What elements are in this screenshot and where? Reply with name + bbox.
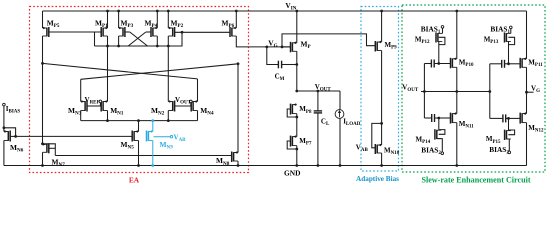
transistor MN7	[43, 143, 49, 153]
label VOUT slew input	[402, 84, 419, 94]
wire MP2/MP6 gate bus	[175, 31, 231, 33]
wire MN7 diode loop	[43, 144, 56, 156]
node VIN label	[285, 1, 296, 12]
wire MN3/MN1 gate bus	[87, 105, 101, 107]
label MP6	[222, 18, 235, 29]
wire MN8 drain column	[237, 64, 239, 153]
label MP5	[47, 18, 60, 29]
wire first-stage bus	[95, 45, 169, 47]
wire IBIAS lead	[3, 106, 5, 132]
wire BIAS1 left stub	[442, 28, 444, 33]
svg-text:BIAS2: BIAS2	[421, 145, 441, 156]
wire right riser	[489, 64, 491, 119]
transistor MP5	[43, 27, 49, 37]
wire MP9 drain to MN10	[381, 51, 383, 146]
transistor MN1	[101, 100, 107, 111]
label VAB adaptive input	[174, 134, 187, 144]
junction MP5 drain / diagonal	[41, 62, 44, 65]
junction MP1 source on VIN	[106, 10, 109, 13]
wire MP2 diode connection	[169, 32, 182, 46]
transistor MP2	[168, 27, 174, 37]
junction MP12 on MP10 gate	[437, 62, 440, 65]
terminal VAB circle (cyan)	[170, 136, 172, 138]
label VG node	[268, 38, 277, 49]
svg-text:EA: EA	[129, 176, 140, 185]
wire MP15 drain lead	[508, 118, 510, 130]
junction VOUT riser left	[423, 90, 426, 93]
junction MP10 source on VIN	[455, 10, 458, 13]
junction MN8 source on GND	[237, 164, 240, 167]
svg-text:Slew-rate Enhancement Circuit: Slew-rate Enhancement Circuit	[421, 175, 530, 184]
wire MP5/MP1 gate bus	[49, 31, 101, 33]
label MP2	[171, 18, 184, 29]
wire MP3 gate cross-couple diagonal	[130, 32, 148, 46]
wire MP gate lead	[282, 46, 290, 48]
label MN6	[10, 143, 24, 154]
junction VOUT riser right	[488, 90, 491, 93]
label MP12	[415, 36, 430, 46]
wire BIAS1 right stub	[510, 29, 512, 34]
wire ILOAD lead top	[339, 91, 341, 110]
wire MN7 gate lead	[49, 147, 56, 149]
transistor MN9 adaptive tail (cyan)	[147, 130, 153, 141]
wire MP3 drain to bus	[118, 36, 120, 46]
junction MP7 on GND	[295, 164, 298, 167]
transistor MP4	[151, 27, 157, 37]
junction CM tap on VG wire	[265, 46, 268, 49]
wire MP source from VIN	[296, 11, 298, 43]
label VG slew output	[531, 84, 540, 94]
capacitor CM plates	[278, 61, 281, 69]
label Slew-rate Enhancement Circuit	[421, 175, 530, 184]
wire MP1 drain to bus	[107, 36, 109, 46]
transistor MN11	[451, 112, 457, 123]
wire MN6 source to GND	[3, 141, 5, 166]
Slew-rate Enhancement block boundary (green dashed box)	[402, 5, 545, 172]
transistor MN4	[191, 100, 197, 111]
svg-text:BIAS2: BIAS2	[489, 145, 509, 156]
capacitor C2 lead	[424, 117, 431, 119]
junction CM on MP drain	[295, 63, 298, 66]
label VAB mirror	[356, 143, 369, 153]
label MN1	[110, 106, 124, 117]
wire MP11 source from VIN	[526, 11, 528, 59]
label MN2	[151, 106, 165, 117]
wire MN1 source to tail	[107, 111, 109, 121]
junction MP3 drain on bus	[117, 45, 120, 48]
junction CL tap	[317, 90, 320, 93]
wire MP10 drain to VOUT node	[456, 67, 458, 91]
label BIAS1 right	[490, 24, 510, 35]
capacitor C4 lead	[490, 117, 503, 119]
wire MP6 drain to VG node	[236, 36, 290, 47]
wire MN7/MN8 gate bus	[55, 155, 231, 157]
junction MP15 tap	[507, 117, 510, 120]
wire MP6 source from VIN	[235, 11, 237, 28]
label MN7	[52, 158, 66, 169]
wire MP11 drain to VG stub	[526, 67, 528, 113]
label EA	[129, 176, 140, 185]
label BIAS1 left	[421, 24, 441, 35]
junction ILOAD on GND	[339, 164, 342, 167]
label MN11	[459, 120, 474, 130]
wire MN2 source to tail	[167, 111, 169, 121]
transistor MN6	[4, 130, 10, 141]
label MP	[301, 40, 311, 51]
capacitor C2 plates	[432, 114, 435, 122]
wire MP4 gate cross-couple diagonal	[128, 32, 146, 46]
junction MN10 on GND	[380, 164, 383, 167]
wire MN5 drain to tail	[138, 121, 140, 132]
transistor MP1	[101, 27, 107, 37]
wire MP2 drain to bus	[167, 36, 169, 46]
junction MN9 source on GND (cyan)	[151, 164, 154, 167]
label MN8	[216, 156, 230, 167]
wire MN9 gate to VAB (cyan)	[154, 136, 171, 138]
label MP10	[459, 58, 474, 68]
label MP11	[528, 58, 543, 68]
label VOUT node	[315, 83, 332, 93]
wire MN10 diode loop	[372, 123, 382, 147]
label Adaptive Bias	[356, 175, 399, 183]
wire VOUT sense	[421, 91, 490, 93]
wire MP5 drain column	[42, 36, 44, 144]
wire MN12 source to GND	[526, 123, 528, 166]
wire C3 to MP11 gate	[505, 63, 521, 65]
junction MN7 source on GND	[41, 164, 44, 167]
terminal BIAS2 left circle	[441, 152, 444, 155]
junction MP4 source on VIN	[156, 10, 159, 13]
transistor MP pass device	[291, 42, 297, 53]
terminal BIAS2 right circle	[508, 151, 511, 154]
junction MP3 source on VIN	[117, 10, 120, 13]
junction MN5 drain on tail	[137, 119, 140, 122]
capacitor C1 lead	[424, 63, 431, 65]
wire MP14 gate-drain loop	[439, 130, 445, 135]
wire MN4 source to tail	[197, 111, 199, 121]
junction diagonal to MN8 drain	[237, 62, 240, 65]
wire MP1 source from VIN	[107, 11, 109, 28]
wire MN5 source to GND	[138, 141, 140, 166]
junction VOUT at MP drain	[295, 90, 298, 93]
terminal VREF circle	[99, 100, 102, 103]
label MP9	[385, 41, 398, 51]
node VOUT wire	[297, 90, 340, 92]
transistor MN3	[81, 100, 87, 111]
wire C1 to MP10 gate	[434, 63, 450, 65]
terminal VOUT stub	[190, 103, 192, 106]
label MP4	[145, 18, 158, 29]
label MN3	[68, 106, 82, 117]
junction MP13 on MP11 gate	[507, 62, 510, 65]
wire MP10 source from VIN	[456, 11, 458, 59]
wire MP12 gate-drain loop	[439, 37, 445, 44]
junction MP14 tap	[437, 117, 440, 120]
label CL	[321, 117, 330, 127]
junction left cell output	[455, 90, 458, 93]
transistor MN12	[520, 112, 526, 123]
wire MN6 gate lead	[10, 135, 15, 137]
wire MP8 diode loop	[287, 109, 297, 117]
current source ILOAD circle	[335, 110, 344, 119]
transistor MP15	[505, 130, 511, 140]
wire MP7 diode loop	[287, 141, 297, 149]
transistor MP12	[436, 32, 442, 42]
wire MP12 drain to gate wire	[438, 42, 440, 64]
wire cross diagonal to MN4 drain	[43, 63, 198, 79]
EA block boundary (red dashed box)	[30, 7, 249, 173]
label MP13	[484, 36, 499, 46]
label BIAS2 right	[489, 145, 509, 156]
junction right cell output	[525, 91, 528, 94]
junction MN6 gate on bias bus	[14, 135, 17, 138]
wire ILOAD lead bottom	[339, 118, 341, 165]
label MP7	[299, 137, 312, 147]
wire MN4 drain lead	[197, 79, 199, 102]
wire MP1 diode riser	[94, 32, 96, 46]
wire bias bus MN6 to MN5	[16, 135, 132, 137]
transistor MN8	[232, 151, 238, 162]
wire left riser	[423, 64, 425, 119]
wire MN11 source to GND	[456, 123, 458, 166]
capacitor CL plates	[314, 111, 322, 113]
label VOUT feedback	[175, 96, 192, 106]
wire MN6 diode loop	[4, 128, 16, 137]
wire MP4 gate lead	[146, 31, 151, 33]
junction MP source on VIN	[295, 10, 298, 13]
junction MN2 source on tail	[167, 119, 170, 122]
label MN9	[160, 140, 174, 151]
transistor MP9	[375, 41, 381, 52]
wire MP8 drain to MP7	[296, 114, 298, 137]
wire VG riser to adaptive bias	[282, 34, 375, 47]
label MP8	[299, 105, 312, 115]
junction MN10 diode tap	[380, 122, 383, 125]
capacitor CM lead right	[282, 64, 297, 66]
wire tail rail	[81, 120, 198, 122]
junction MP2 drain on bus	[167, 45, 170, 48]
wire MN10 source to GND	[381, 153, 383, 166]
wire MP3 source from VIN	[118, 11, 120, 28]
wire MP15 gate-drain loop	[508, 130, 514, 135]
terminal VREF stub	[99, 103, 101, 106]
wire C2 to MN11 gate	[435, 117, 451, 119]
capacitor C4 plates	[503, 114, 506, 122]
capacitor C3 plates	[502, 60, 505, 68]
junction VG riser	[281, 46, 284, 49]
junction MN5 source on GND	[137, 164, 140, 167]
wire MN1 drain from bus	[107, 46, 109, 102]
label MN5	[121, 140, 135, 151]
wire MP13 drain to gate wire	[508, 42, 510, 64]
wire MP2 source from VIN	[167, 11, 169, 28]
label MP1	[95, 18, 108, 29]
wire MP4 drain to bus	[156, 36, 158, 46]
label MN4	[200, 106, 214, 117]
node GND label	[284, 168, 300, 177]
transistor MN2	[168, 100, 174, 111]
wire C4 to MN12 gate	[506, 117, 520, 119]
wire MP5 source from VIN	[42, 11, 44, 28]
junction MP9 source on VIN	[380, 10, 383, 13]
capacitor C1 plates	[431, 60, 434, 68]
label CM	[275, 72, 285, 82]
wire MP14 drain lead	[438, 118, 440, 130]
capacitor C3 lead	[490, 63, 502, 65]
label BIAS2 left	[421, 145, 441, 156]
junction MP2 gate-drain tie	[181, 31, 184, 34]
capacitor CM lead left	[267, 47, 279, 65]
terminal IBIAS circle	[3, 103, 6, 106]
junction MN11 on GND	[455, 164, 458, 167]
label MN12	[528, 124, 544, 134]
label VREF	[85, 96, 100, 106]
transistor MP13	[505, 32, 511, 42]
transistor MP3	[119, 27, 125, 37]
svg-text:Adaptive Bias: Adaptive Bias	[356, 175, 399, 183]
label MP15	[486, 135, 501, 145]
junction MP1 drain on bus	[106, 45, 109, 48]
ground rail GND	[4, 165, 527, 167]
transistor MP6	[230, 27, 236, 37]
transistor MN5	[132, 130, 138, 141]
wire MN7 source to GND	[42, 152, 44, 165]
wire MN3 source to tail	[80, 111, 82, 121]
label MP14	[416, 135, 431, 145]
wire MP14 source stub	[437, 139, 443, 152]
wire MP2 drain to MN2 drain	[167, 46, 169, 102]
terminal BIAS1 left circle	[441, 26, 444, 29]
svg-text:GND: GND	[284, 168, 300, 177]
wire MP15 source stub	[507, 139, 510, 151]
junction MP6 source on VIN	[235, 10, 238, 13]
wire MN9 source to GND (cyan)	[152, 141, 154, 166]
wire MN3 drain lead	[80, 79, 82, 101]
terminal BIAS1 right circle	[510, 26, 513, 29]
wire MP7 drain to GND	[296, 146, 298, 166]
label ILOAD	[343, 117, 361, 127]
transistor MP10	[451, 58, 457, 69]
wire VG output stub	[527, 91, 534, 93]
label IBIAS	[6, 105, 21, 115]
wire MP3 gate lead	[125, 31, 130, 33]
junction MP8 diode	[295, 116, 298, 119]
wire cross diagonal from MN3 drain	[81, 64, 238, 80]
terminal VOUT circle	[190, 100, 193, 103]
transistor MP11	[520, 58, 526, 69]
Adaptive Bias block boundary (cyan dashed box)	[361, 7, 399, 172]
transistor MP14	[435, 129, 441, 139]
capacitor CL lead top	[317, 91, 319, 111]
label MP3	[121, 18, 134, 29]
label MN10	[384, 146, 400, 156]
junction MP4 drain on bus	[156, 45, 159, 48]
wire MN8 source to GND	[237, 161, 239, 166]
junction MN1 source on tail	[106, 119, 109, 122]
wire MN2/MN4 gate bus	[175, 105, 192, 107]
wire MP13 gate-drain loop	[508, 37, 514, 44]
junction MP7 diode	[295, 148, 298, 151]
wire MP drain to VOUT	[296, 51, 298, 91]
transistor MP7	[291, 135, 297, 146]
transistor MP8	[291, 103, 297, 114]
junction MP2 source on VIN	[167, 10, 170, 13]
wire MN11 drain	[456, 92, 458, 114]
junction CL on GND	[317, 164, 320, 167]
capacitor CL lead bottom	[317, 113, 319, 166]
VIN supply rail	[43, 10, 527, 12]
wire MP4 source from VIN	[156, 11, 158, 28]
junction MN6 diode tap	[3, 126, 6, 129]
transistor MN10	[375, 144, 381, 154]
wire MP9 source from VIN	[381, 11, 383, 42]
wire MN9 drain to tail (cyan)	[152, 121, 154, 132]
junction MN7 drain	[41, 142, 44, 145]
junction MN9 drain on tail (cyan)	[151, 119, 154, 122]
